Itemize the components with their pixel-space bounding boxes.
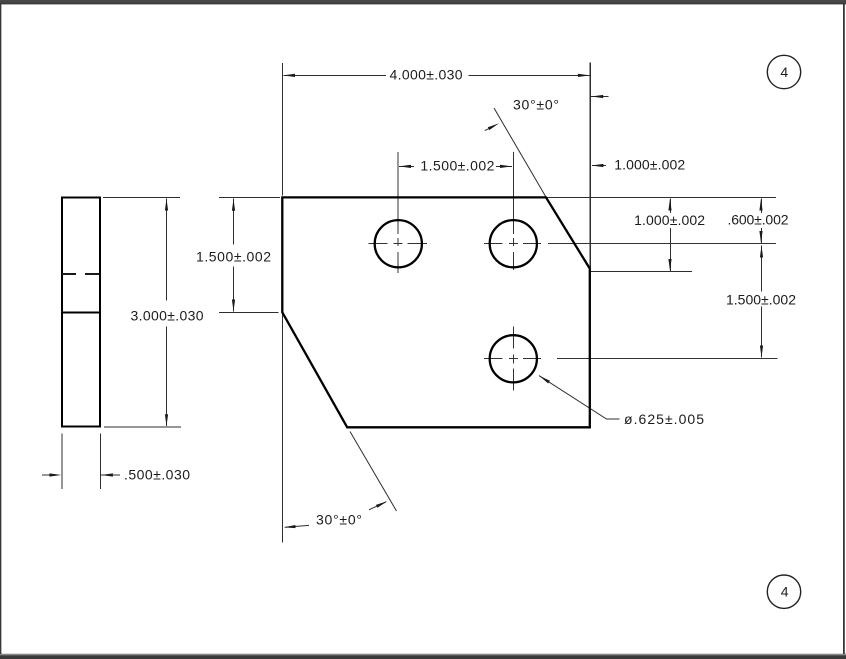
svg-text:1.500±.002: 1.500±.002 — [196, 248, 271, 264]
svg-text:1.500±.002: 1.500±.002 — [420, 158, 494, 174]
svg-text:1.000±.002: 1.000±.002 — [634, 212, 705, 228]
svg-text:3.000±.030: 3.000±.030 — [131, 307, 204, 323]
svg-text:4: 4 — [780, 64, 788, 80]
svg-text:1.000±.002: 1.000±.002 — [614, 157, 685, 173]
svg-text:30°±0°: 30°±0° — [513, 96, 559, 112]
svg-text:4.000±.030: 4.000±.030 — [390, 66, 463, 82]
svg-text:.600±.002: .600±.002 — [728, 212, 789, 228]
svg-text:.500±.030: .500±.030 — [124, 466, 190, 482]
svg-text:1.500±.002: 1.500±.002 — [726, 291, 796, 307]
svg-text:4: 4 — [781, 584, 789, 600]
svg-text:30°±0°: 30°±0° — [316, 512, 362, 528]
svg-text:ø.625±.005: ø.625±.005 — [624, 411, 704, 427]
